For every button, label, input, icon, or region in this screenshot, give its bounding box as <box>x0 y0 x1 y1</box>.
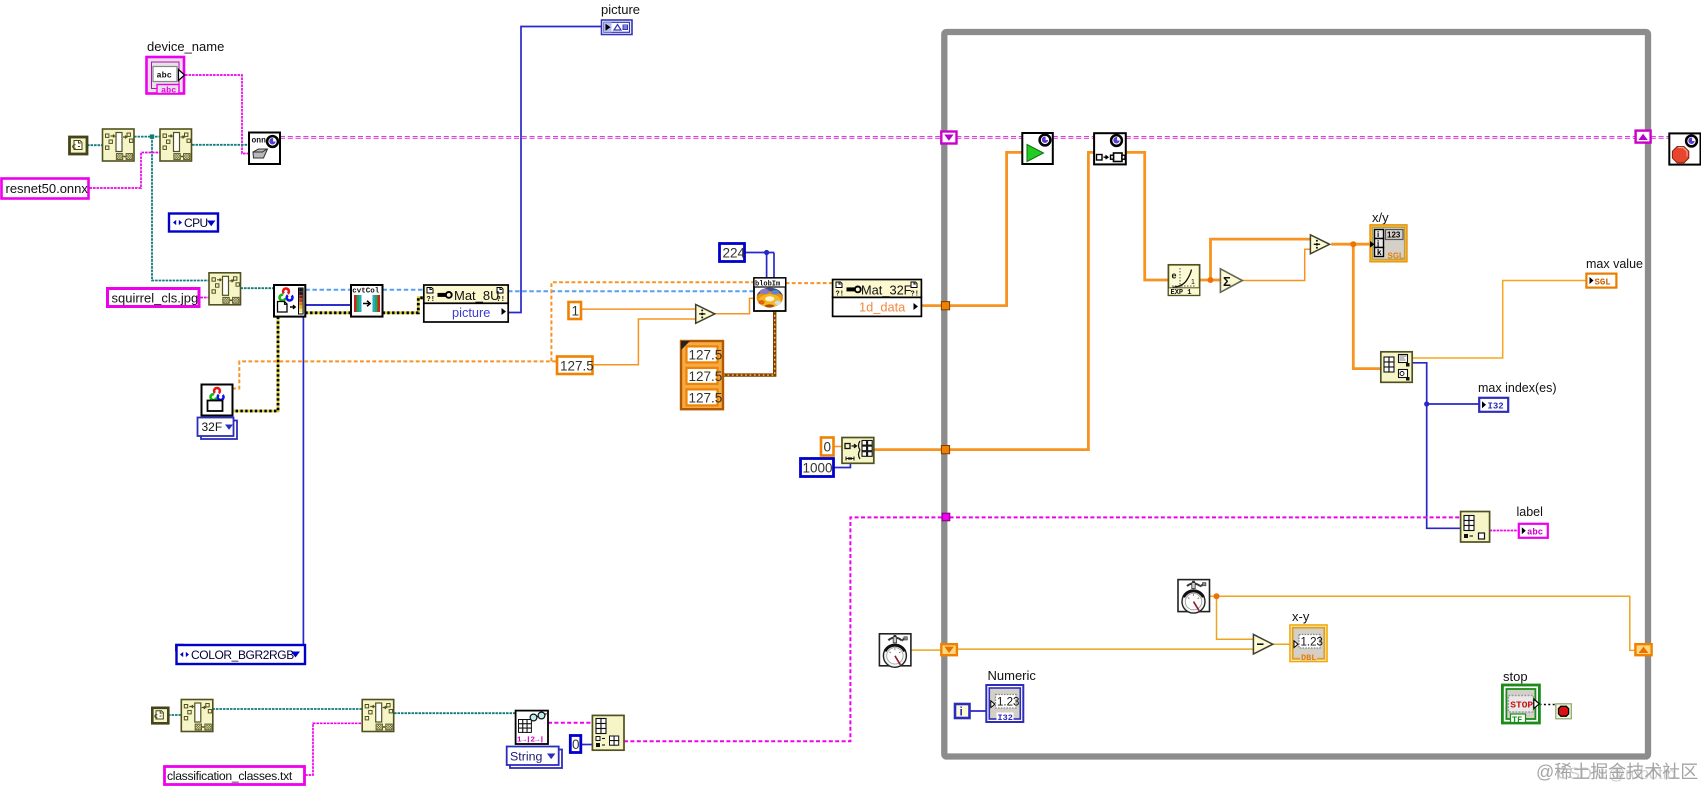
svg-text:resnet50.onnx: resnet50.onnx <box>6 181 89 196</box>
node: session run <box>1022 133 1053 164</box>
node: EXP <box>1168 265 1199 297</box>
wire: 224 to blobImage size inputs (dark blue with junction) <box>745 253 774 278</box>
wire: max index (blue) to indicator and index array <box>1412 363 1479 529</box>
wire: blobImage out to Mat_32F (orange dashed) <box>786 282 833 284</box>
svg-text:?!: ?! <box>836 291 844 299</box>
tunnel: session out (magenta, up arrow) <box>1636 131 1651 143</box>
terminal: loop iteration i <box>955 704 970 719</box>
svg-text:classification_classes.txt: classification_classes.txt <box>167 769 293 783</box>
wire: device_name string to onnx open node <box>185 75 249 154</box>
primitive: divide <box>696 305 715 324</box>
svg-text:stop: stop <box>1503 669 1528 684</box>
tunnel: x ramp array (orange) <box>941 446 949 454</box>
wire: onnx session class (magenta dashed) across to loop <box>280 136 1669 138</box>
tunnel: 1d data (orange) <box>941 302 949 310</box>
wire: property node 1 to 2 with branch down to squirrel row (teal) <box>134 137 209 281</box>
svg-text:1000: 1000 <box>803 461 833 476</box>
svg-text:i: i <box>1377 230 1379 239</box>
property node 2 (create session) <box>160 129 192 161</box>
svg-text:Mat_8U: Mat_8U <box>454 288 500 303</box>
wire: COLOR_BGR2RGB code (dark blue) up to cvtCol <box>303 305 351 644</box>
wire: mean array (brown dotted) to blobImage <box>723 311 775 375</box>
svg-text:label: label <box>1517 505 1543 519</box>
svg-text:0: 0 <box>824 440 832 455</box>
svg-text:picture: picture <box>452 305 490 320</box>
svg-text:picture: picture <box>601 2 640 17</box>
wire: stop button to loop condition (black dotted) <box>1540 704 1556 706</box>
node: onnx open session <box>249 133 280 165</box>
svg-text:127.5: 127.5 <box>560 359 594 374</box>
svg-text:abc: abc <box>1527 528 1543 538</box>
express vi: Mat_8U <box>424 285 508 322</box>
svg-text:blobIm: blobIm <box>755 281 780 289</box>
wire: resnet50.onnx string to property node 2 <box>90 153 161 189</box>
wire: classification file string up to property node 5 <box>305 723 362 775</box>
property node 1 (parse model path) <box>103 129 135 161</box>
wire: imread int out to cvtCol <box>305 304 351 306</box>
indicator terminal: label abc <box>1519 524 1548 538</box>
indicator terminal: max index I32 <box>1479 398 1508 412</box>
svg-text:I32: I32 <box>998 713 1013 723</box>
control terminal: device_name <box>147 57 185 96</box>
svg-text:127.5: 127.5 <box>689 369 723 384</box>
watermark <box>1536 762 1698 783</box>
svg-text:32F: 32F <box>202 420 223 434</box>
node: tick count outside <box>879 634 911 668</box>
express vi: Mat_32F <box>833 280 922 317</box>
node: index array (labels) <box>1461 512 1490 543</box>
wire: 0 row index to index array node (blue) <box>581 744 593 746</box>
wire: property node 3 to imread (teal) <box>241 287 275 289</box>
indicator terminal: picture <box>602 20 633 35</box>
svg-text:max index(es): max index(es) <box>1478 381 1557 395</box>
wire: vi ref to property node 1 (teal) <box>87 144 103 146</box>
svg-text:onn: onn <box>252 137 267 146</box>
node: tick count inside <box>1178 580 1210 614</box>
svg-text:0: 0 <box>572 737 580 752</box>
svg-text:1→❙2→❙: 1→❙2→❙ <box>517 736 544 745</box>
wire: tick count 2 out, junction, to right shift register and subtract <box>1210 596 1635 650</box>
ring constant: 32F <box>198 418 238 440</box>
constant: squirrel_cls.jpg <box>108 289 200 307</box>
svg-text:1.23: 1.23 <box>1301 637 1323 649</box>
wire: subtract out to x-y indicator <box>1273 643 1290 645</box>
vi reference icon 2 <box>152 708 168 724</box>
wire: index array to label indicator (pink) <box>1490 530 1519 532</box>
wire: picture (dark blue zigzag) from Mat_8U to picture indicator <box>508 27 601 313</box>
svg-text:Numeric: Numeric <box>988 668 1037 683</box>
constant: 0 (row index) <box>570 736 581 753</box>
svg-text:max value: max value <box>1586 257 1643 271</box>
svg-text:1: 1 <box>1191 279 1195 286</box>
constant: classification_classes.txt <box>165 767 305 785</box>
tunnel: session in (magenta) <box>941 132 956 144</box>
svg-text:224: 224 <box>723 246 746 261</box>
wire: ramp array through tunnel to mat-to-image node (orange array) <box>874 152 1094 449</box>
primitive: divide (softmax) <box>1310 235 1329 254</box>
svg-text:SGL: SGL <box>1388 252 1405 261</box>
wire: 1 constant to divide <box>582 308 696 310</box>
shift register left (orange down triangle) <box>941 644 957 655</box>
svg-text:127.5: 127.5 <box>689 347 723 362</box>
wire: max value out (thin orange) <box>1412 281 1586 359</box>
wire: vi ref 2 to property node 4 (teal) <box>168 714 181 716</box>
svg-text:TF: TF <box>1512 715 1522 725</box>
wire: 0 constant to ramp node <box>834 446 842 448</box>
wire: mat-to-image out down to EXP node <box>1126 152 1169 280</box>
node: cvtColor <box>351 285 383 317</box>
indicator: Numeric I32 <box>986 685 1023 723</box>
property node 3 (read image path) <box>209 273 241 305</box>
svg-text:1: 1 <box>572 304 580 319</box>
constant: 1 <box>569 302 582 319</box>
ring constant: String <box>507 747 562 769</box>
tunnel: label strings (magenta) <box>942 513 950 521</box>
svg-text:j: j <box>1376 239 1379 248</box>
primitive: subtract <box>1253 634 1272 654</box>
property node 5 <box>362 700 394 732</box>
svg-text:abc: abc <box>157 71 172 81</box>
node junction teal <box>150 134 154 138</box>
wire: i terminal to Numeric indicator <box>970 710 987 712</box>
svg-text:1d_data: 1d_data <box>859 300 906 315</box>
wire: property node 5 to read spreadsheet (teal) <box>394 712 516 714</box>
wire: softmax divide out to x/y indicator and down to array max min <box>1331 244 1381 368</box>
svg-text:?!: ?! <box>911 291 919 299</box>
constant: 127.5 <box>557 357 594 375</box>
svg-text:CPU: CPU <box>184 216 208 230</box>
svg-text:cvtCol: cvtCol <box>352 288 380 296</box>
wire: read spreadsheet 2d string to index array (pink zigzag) <box>548 722 592 724</box>
wire: tick count to left shift register <box>911 649 942 651</box>
indicator: x-y DBL <box>1290 625 1327 663</box>
indicator terminal: max value SGL <box>1586 274 1616 288</box>
svg-text:String: String <box>510 749 542 763</box>
enum constant: CPU <box>169 214 218 232</box>
svg-text:Mat_32F: Mat_32F <box>861 283 912 298</box>
svg-text:i: i <box>960 705 963 719</box>
svg-text:I32: I32 <box>1488 402 1504 412</box>
array constant: mean 127.5 x3 <box>681 341 723 409</box>
constant: 0 <box>821 438 834 456</box>
wire: 1000 constant to ramp node <box>834 463 850 467</box>
svg-text:Σ: Σ <box>1223 274 1231 289</box>
wire: error imread down to depth-const node (yellow black stripes) <box>233 317 279 411</box>
node: cv imread <box>274 285 305 317</box>
wire: 127.5 scale (orange dashed) to depth node and up to blobImage <box>232 282 754 388</box>
svg-text:STOP: STOP <box>1510 700 1533 711</box>
constant: 224 <box>720 244 746 262</box>
shift register right (orange up triangle) <box>1635 644 1651 655</box>
svg-text:squirrel_cls.jpg: squirrel_cls.jpg <box>112 291 199 306</box>
node: read delimited spreadsheet <box>516 711 548 745</box>
wire: property node 2 to onnx open (teal) <box>192 144 249 146</box>
terminal: loop condition (stop sign) <box>1556 704 1572 719</box>
vi reference icon 1 <box>70 137 88 154</box>
svg-text:CSDN @robotlb: CSDN @robotlb <box>1557 765 1676 783</box>
constant: resnet50.onnx <box>2 179 89 199</box>
node: ramp pattern <box>842 438 874 464</box>
control terminal: stop button <box>1502 685 1539 725</box>
svg-text:1.23: 1.23 <box>997 697 1019 709</box>
node: mat to image <box>1094 133 1126 164</box>
node: array max min <box>1381 352 1412 383</box>
wire: 127.5 to divide lower input <box>593 319 696 365</box>
svg-text:k: k <box>1377 248 1382 257</box>
wire: divide out to blobImage scalefactor <box>715 298 754 313</box>
constant: 1000 <box>801 459 834 477</box>
wire: error imread->cvtCol->Mat_8U <box>305 298 424 313</box>
svg-text:x-y: x-y <box>1292 609 1310 624</box>
wire: Mat_32F 1d_data to loop tunnel and to play node (orange array) <box>921 152 1022 305</box>
indicator: x/y array <box>1370 225 1407 262</box>
property node 4 <box>181 700 213 732</box>
wire: EXP out junction to divide and sum <box>1200 239 1311 280</box>
node: index array (classes row) <box>592 715 624 750</box>
node: session close <box>1669 133 1700 164</box>
svg-text:DBL: DBL <box>1301 653 1316 663</box>
svg-text:123: 123 <box>1387 231 1401 240</box>
svg-text:e: e <box>1172 271 1177 281</box>
node: blobImage <box>754 278 786 311</box>
svg-text:device_name: device_name <box>147 39 224 54</box>
svg-text:SGL: SGL <box>1595 278 1611 288</box>
svg-text:EXP 1: EXP 1 <box>1171 289 1192 297</box>
wire: Mat image (light blue dashed) imread->cvtCol->Mat_8U->blobImage <box>305 290 754 291</box>
svg-text:COLOR_BGR2RGB: COLOR_BGR2RGB <box>191 648 294 662</box>
wire: squirrel_cls.jpg to property node 3 <box>201 297 210 299</box>
svg-text:abc: abc <box>161 86 176 96</box>
svg-text:127.5: 127.5 <box>689 390 723 405</box>
enum constant: COLOR_BGR2RGB <box>175 644 305 664</box>
while loop border <box>944 32 1648 757</box>
wire: left shift register to subtract <box>957 648 1254 650</box>
svg-text:x/y: x/y <box>1372 210 1389 225</box>
svg-text:?!: ?! <box>427 296 435 304</box>
wire: property node 4 to 5 (teal) <box>212 708 362 710</box>
wire: label string array path (pink dashed) from index node through loop to index array <box>624 517 1461 741</box>
wire: sum out to divide lower input (thin) <box>1243 249 1311 280</box>
node: depth constant builder (opencv) <box>202 385 233 416</box>
primitive: sum elements <box>1220 269 1242 293</box>
